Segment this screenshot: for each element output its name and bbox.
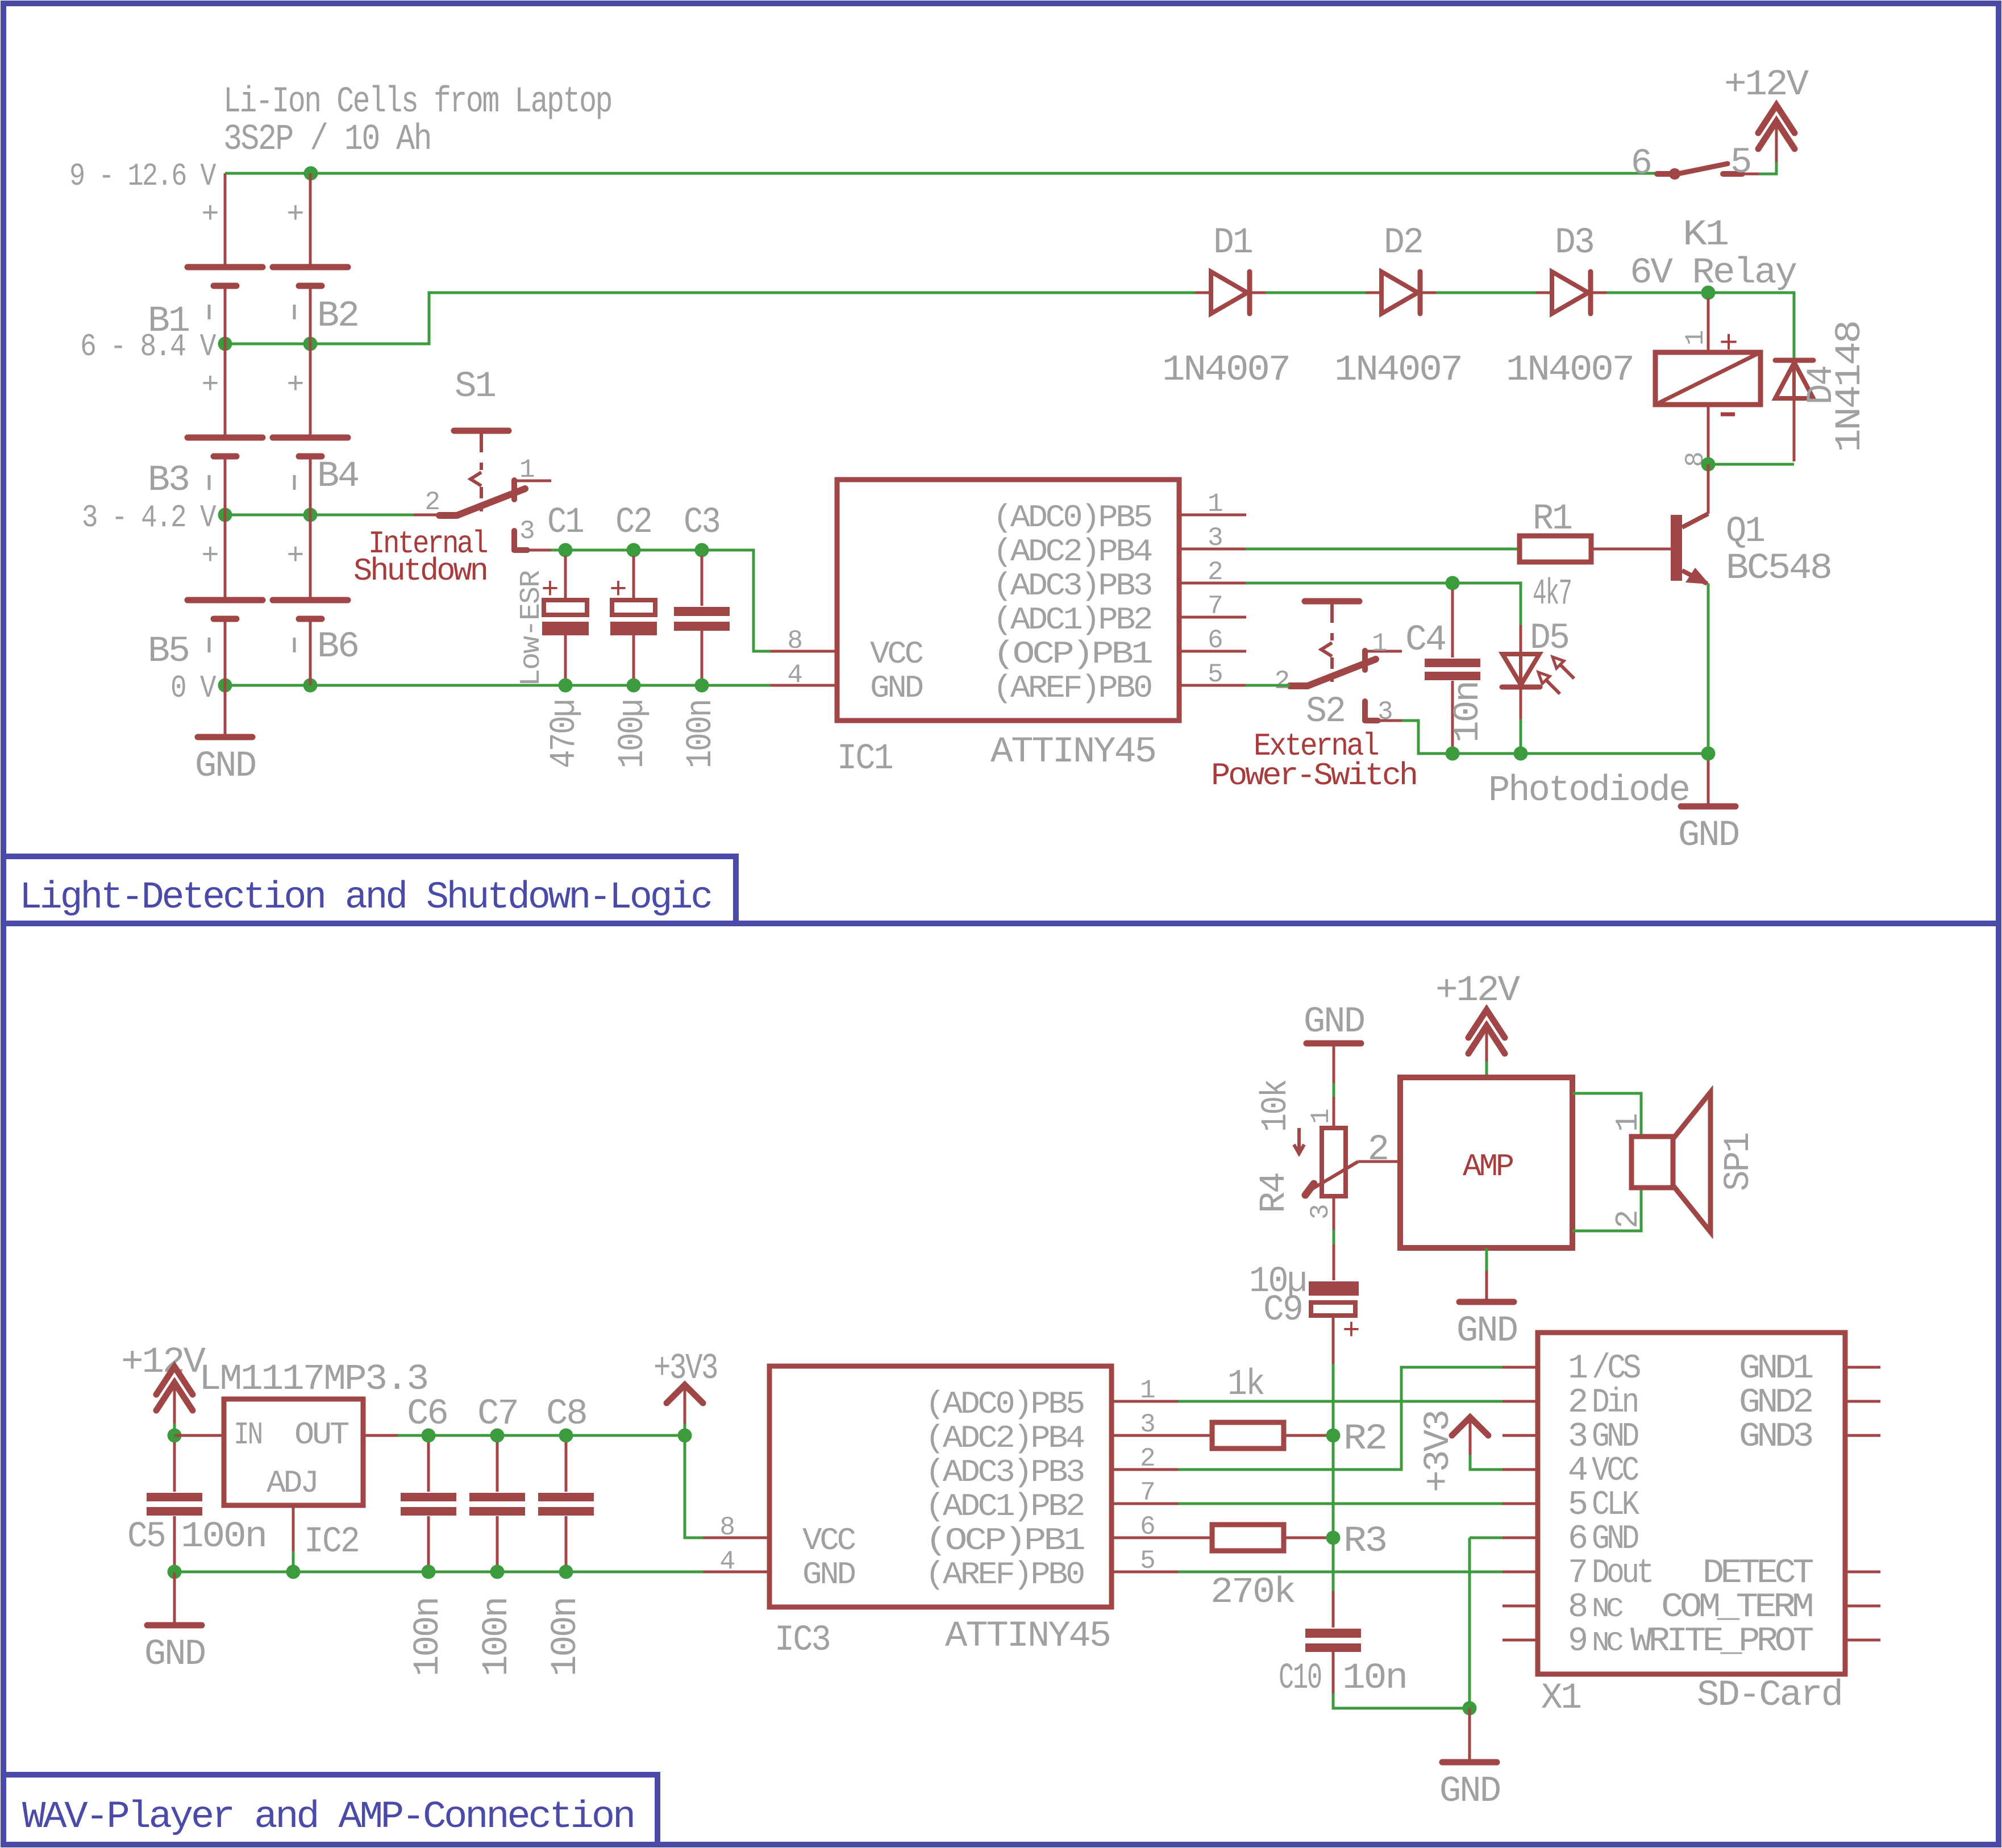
wire between D1 and D2	[1266, 292, 1366, 294]
svg-text:3S2P / 10 Ah: 3S2P / 10 Ah	[223, 119, 431, 160]
X1 right pin stubs	[1845, 1366, 1880, 1369]
capacitor C2	[627, 543, 641, 557]
svg-text:+: +	[201, 198, 219, 231]
svg-text:DETECT: DETECT	[1703, 1554, 1813, 1593]
svg-text:8: 8	[787, 626, 802, 656]
svg-text:Low-ESR: Low-ESR	[515, 571, 548, 686]
wire R4 pin3 to C9	[1333, 1196, 1335, 1230]
battery cell B4	[309, 344, 312, 435]
resistor R2 1k	[1179, 1434, 1212, 1437]
svg-text:B4: B4	[317, 456, 359, 497]
svg-text:COM_TERM: COM_TERM	[1661, 1588, 1812, 1627]
capacitor C6 100n	[422, 1429, 436, 1443]
svg-text:+: +	[1342, 1314, 1360, 1348]
svg-text:5: 5	[1730, 143, 1750, 184]
capacitor C10 10n	[1332, 1538, 1335, 1591]
svg-text:+3V3: +3V3	[1418, 1411, 1459, 1492]
battery cell B2	[309, 173, 312, 264]
ground below X1	[1468, 1708, 1471, 1762]
svg-text:(ADC0)PB5: (ADC0)PB5	[925, 1386, 1084, 1422]
svg-text:/CS: /CS	[1592, 1350, 1641, 1388]
svg-text:C2: C2	[615, 502, 651, 543]
svg-text:CLK: CLK	[1592, 1486, 1639, 1525]
svg-text:VCC: VCC	[802, 1522, 855, 1559]
svg-text:Din: Din	[1592, 1384, 1637, 1422]
svg-text:+: +	[286, 198, 304, 231]
node R3 output junction	[1326, 1531, 1341, 1545]
IC IC1 pin stubs right	[1179, 514, 1246, 517]
battery cell B5	[224, 515, 227, 597]
wire VCC stub into IC3 pin8	[703, 1537, 769, 1539]
svg-text:5: 5	[1568, 1486, 1587, 1525]
wire stub SD pin2	[1502, 1400, 1538, 1403]
title box WAV-Player	[3, 1775, 657, 1845]
svg-text:(ADC2)PB4: (ADC2)PB4	[993, 534, 1151, 570]
svg-text:(ADC2)PB4: (ADC2)PB4	[925, 1420, 1084, 1456]
wire D3 to relay and D4	[1606, 293, 1794, 358]
wire IC3 pin5 PB0 to SD Dout	[1179, 1571, 1502, 1574]
svg-text:+: +	[1719, 326, 1738, 362]
wire ground rail bottom section	[174, 1571, 703, 1574]
svg-text:C7: C7	[477, 1394, 518, 1435]
svg-text:1: 1	[519, 455, 535, 485]
svg-text:Shutdown: Shutdown	[353, 553, 486, 589]
svg-text:SP1: SP1	[1718, 1133, 1759, 1191]
svg-text:C6: C6	[407, 1394, 447, 1435]
title box Light-Detection	[3, 856, 736, 923]
potentiometer R4 adjust arrow	[1297, 1128, 1301, 1151]
relay K1 contact pins 6-5	[1657, 171, 1671, 177]
switch S1 pole pin 2	[414, 514, 439, 517]
switch S2 lever	[1290, 659, 1376, 686]
capacitor C7 100n	[490, 1429, 505, 1443]
svg-text:2: 2	[1368, 1130, 1388, 1171]
svg-text:1N4007: 1N4007	[1506, 350, 1633, 391]
svg-text:GND: GND	[1592, 1418, 1638, 1456]
svg-text:10n: 10n	[1342, 1658, 1406, 1699]
svg-text:C3: C3	[684, 502, 719, 543]
wire IC2 OUT to 3V3 rail	[363, 1434, 398, 1437]
svg-text:100n: 100n	[408, 1598, 449, 1676]
switch S1 lever	[439, 489, 525, 515]
svg-text:B5: B5	[148, 631, 189, 672]
amplifier AMP module	[1400, 1077, 1572, 1248]
battery cell B6	[309, 515, 312, 597]
svg-text:K1: K1	[1683, 215, 1728, 256]
svg-text:B2: B2	[317, 296, 358, 337]
wire GND stub into IC1 pin4	[771, 684, 837, 687]
battery cell B1	[224, 173, 227, 264]
node rail2 junction B1	[218, 337, 232, 351]
wire AMP output 1 to speaker	[1572, 1093, 1641, 1135]
svg-text:Power-Switch: Power-Switch	[1211, 757, 1416, 794]
switch S2 actuator	[1305, 598, 1359, 605]
wire 3-4.2V rail to S1	[225, 514, 414, 517]
svg-text:Li-Ion Cells from Laptop: Li-Ion Cells from Laptop	[223, 82, 611, 123]
svg-text:8: 8	[1568, 1588, 1587, 1627]
svg-text:100n: 100n	[181, 1517, 266, 1558]
svg-text:WAV-Player and AMP-Connection: WAV-Player and AMP-Connection	[22, 1796, 634, 1839]
wire 12V battery rail	[225, 172, 1657, 175]
svg-text:GND2: GND2	[1739, 1384, 1812, 1422]
svg-text:NC: NC	[1592, 1594, 1623, 1625]
photodiode D5	[1520, 625, 1522, 653]
wire IC2 ADJ to ground rail	[292, 1505, 295, 1551]
switch S2 pin 3	[1362, 701, 1368, 721]
wire AMP output 2 to speaker	[1572, 1189, 1641, 1231]
wire PB3 row to C4 and D5	[1246, 583, 1521, 625]
svg-text:C8: C8	[546, 1394, 586, 1435]
svg-text:R2: R2	[1343, 1419, 1386, 1460]
svg-text:AMP: AMP	[1463, 1148, 1513, 1185]
IC IC3 ATTINY45 body	[769, 1366, 1112, 1607]
capacitor C1	[559, 543, 573, 557]
svg-text:(ADC3)PB3: (ADC3)PB3	[925, 1454, 1084, 1491]
capacitor C9 10u	[1309, 1281, 1359, 1296]
ground below Q1	[1707, 754, 1710, 806]
wire audio net C9 to R2 to R3	[1332, 1364, 1335, 1435]
svg-text:+: +	[201, 539, 219, 573]
svg-text:+: +	[286, 539, 304, 573]
svg-text:1: 1	[1306, 1109, 1336, 1124]
svg-text:2: 2	[1610, 1212, 1646, 1229]
svg-text:9 - 12.6 V: 9 - 12.6 V	[69, 158, 217, 194]
svg-text:Light-Detection and Shutdown-L: Light-Detection and Shutdown-Logic	[19, 876, 711, 919]
svg-text:R1: R1	[1533, 499, 1572, 540]
svg-text:1: 1	[1140, 1376, 1155, 1405]
wire VCC rail from S1 to IC1 pin8	[551, 550, 771, 651]
svg-text:GND: GND	[870, 670, 922, 706]
wire ground stub into IC3 pin4	[703, 1571, 769, 1574]
switch S2 pole pin 2	[1264, 684, 1290, 687]
svg-text:5: 5	[1208, 660, 1223, 689]
svg-text:C5: C5	[127, 1517, 165, 1558]
svg-text:3: 3	[1140, 1410, 1155, 1439]
SD card holder X1	[1538, 1333, 1845, 1674]
IC IC1 ATTINY45 body	[837, 480, 1179, 721]
photodiode D5 light arrows	[1560, 664, 1574, 679]
svg-text:D3: D3	[1555, 223, 1593, 264]
wire IC3 pin1 PB5 to SD Din	[1179, 1400, 1502, 1403]
svg-text:3: 3	[1208, 523, 1223, 553]
svg-text:ATTINY45: ATTINY45	[945, 1616, 1110, 1657]
svg-text:270k: 270k	[1210, 1572, 1295, 1613]
diode D2 1N4007	[1381, 272, 1418, 314]
svg-text:GND1: GND1	[1739, 1350, 1813, 1388]
svg-text:1: 1	[1568, 1350, 1587, 1388]
node rail4 junction B6	[303, 679, 318, 693]
capacitor C5 100n	[173, 1442, 176, 1492]
transistor Q1 BC548	[1671, 515, 1682, 581]
wire VCC stub into IC1 pin8	[771, 650, 837, 653]
node rail3 junction B4	[303, 508, 318, 522]
svg-text:6: 6	[1140, 1512, 1155, 1542]
svg-text:2: 2	[1208, 557, 1223, 587]
svg-text:3: 3	[1377, 697, 1393, 727]
diode D3 1N4007	[1552, 272, 1588, 314]
resistor R1 4k7	[1246, 548, 1518, 551]
svg-text:IC2: IC2	[304, 1522, 359, 1563]
switch S1 pin 1	[514, 480, 551, 482]
svg-text:5: 5	[1140, 1546, 1155, 1576]
svg-text:VCC: VCC	[1592, 1452, 1638, 1491]
svg-text:100µ: 100µ	[613, 700, 654, 768]
wire IC3 pin2 PB3 to SD /CS	[1179, 1367, 1502, 1470]
svg-text:3: 3	[1306, 1204, 1335, 1219]
svg-text:Q1: Q1	[1726, 511, 1764, 552]
svg-text:1: 1	[1372, 629, 1387, 659]
node C4 top junction	[1446, 576, 1460, 590]
node rail2 junction B2	[303, 337, 318, 351]
svg-text:1: 1	[1610, 1114, 1646, 1132]
svg-text:4: 4	[1568, 1452, 1587, 1491]
svg-text:LM1117MP3.3: LM1117MP3.3	[199, 1359, 427, 1400]
switch S1 pin 3	[511, 531, 517, 550]
svg-text:D1: D1	[1213, 223, 1252, 264]
svg-text:4: 4	[787, 660, 802, 690]
svg-text:GND: GND	[195, 746, 256, 787]
section divider line	[3, 921, 1999, 926]
svg-text:C10: C10	[1279, 1658, 1321, 1699]
svg-text:IC1: IC1	[837, 739, 893, 780]
svg-text:GND: GND	[1439, 1771, 1500, 1812]
svg-text:IN: IN	[234, 1417, 261, 1453]
svg-text:S2: S2	[1306, 692, 1345, 732]
supply +12V top right	[1775, 124, 1778, 162]
node rail3 junction B3	[218, 508, 232, 522]
svg-text:ATTINY45: ATTINY45	[990, 732, 1155, 773]
wire between D2 and D3	[1436, 292, 1536, 294]
svg-text:B3: B3	[148, 460, 189, 501]
svg-text:2: 2	[424, 488, 440, 517]
wire AMP ground	[1485, 1248, 1488, 1271]
svg-text:B6: B6	[317, 627, 358, 668]
wire stub SD pin1	[1502, 1366, 1538, 1369]
svg-text:2: 2	[1568, 1384, 1586, 1422]
IC IC1 pin stubs left	[771, 650, 837, 653]
svg-text:100n: 100n	[477, 1598, 518, 1676]
ground below C5	[173, 1572, 176, 1625]
svg-text:7: 7	[1140, 1478, 1155, 1508]
svg-text:0 V: 0 V	[170, 670, 217, 706]
svg-text:3: 3	[519, 517, 535, 546]
wire relay pin5 to +12V	[1759, 162, 1776, 174]
relay K1 coil	[1707, 298, 1710, 352]
potentiometer R4 wiper	[1305, 1184, 1314, 1195]
svg-text:6: 6	[1631, 144, 1651, 185]
capacitor C8 100n	[559, 1429, 573, 1443]
node C10 ground junction	[1463, 1701, 1477, 1716]
svg-text:C9: C9	[1263, 1290, 1302, 1331]
wire photodiode ground row	[1418, 752, 1708, 755]
ground below batteries	[224, 685, 227, 737]
wire 0V rail	[225, 684, 771, 687]
svg-text:VCC: VCC	[870, 636, 923, 672]
switch S2 pin 1	[1365, 650, 1402, 653]
capacitor C3	[695, 543, 709, 557]
switch S1 actuator	[454, 428, 509, 434]
node rail4 junction B5	[218, 679, 232, 693]
svg-text:(OCP)PB1: (OCP)PB1	[925, 1522, 1084, 1559]
svg-text:1: 1	[1681, 330, 1710, 346]
svg-text:1N4007: 1N4007	[1334, 350, 1462, 391]
node R2 output junction	[1326, 1429, 1341, 1443]
wire relay-D4 bottom junction to Q1 collector	[1708, 463, 1794, 466]
svg-text:D2: D2	[1384, 223, 1422, 264]
svg-text:2: 2	[1274, 667, 1289, 696]
svg-text:SD-Card: SD-Card	[1697, 1675, 1842, 1716]
svg-text:2: 2	[1140, 1444, 1155, 1474]
node 3V3 rail junction	[678, 1429, 692, 1443]
wire PB0 row to S2	[1246, 684, 1290, 687]
svg-text:OUT: OUT	[294, 1417, 348, 1453]
svg-text:7: 7	[1208, 592, 1223, 621]
svg-text:(AREF)PB0: (AREF)PB0	[993, 670, 1151, 706]
diode D4 1N4148	[1775, 358, 1813, 363]
svg-text:R4: R4	[1254, 1173, 1295, 1213]
svg-text:100n: 100n	[546, 1598, 586, 1676]
ground below AMP	[1485, 1271, 1488, 1302]
svg-text:(ADC1)PB2: (ADC1)PB2	[925, 1488, 1083, 1525]
svg-text:+: +	[286, 368, 304, 402]
svg-text:B1: B1	[148, 301, 189, 342]
wire S2 pin3 to photodiode row	[1402, 721, 1452, 754]
svg-text:6: 6	[1568, 1520, 1587, 1559]
resistor R3 270k	[1179, 1537, 1212, 1539]
speaker SP1	[1631, 1137, 1673, 1188]
svg-text:(ADC3)PB3: (ADC3)PB3	[993, 568, 1151, 604]
wire 3V3 down to IC3 pin8	[685, 1435, 703, 1538]
svg-text:IC3: IC3	[775, 1620, 830, 1661]
svg-text:ADJ: ADJ	[267, 1465, 317, 1501]
svg-text:9: 9	[1568, 1622, 1586, 1661]
svg-text:+: +	[201, 368, 219, 402]
svg-text:1N4007: 1N4007	[1162, 350, 1289, 391]
svg-text:1k: 1k	[1227, 1364, 1264, 1405]
svg-text:GND: GND	[1456, 1311, 1517, 1352]
svg-text:+: +	[609, 573, 627, 607]
svg-text:(ADC0)PB5: (ADC0)PB5	[993, 500, 1151, 536]
svg-text:3: 3	[1568, 1418, 1587, 1456]
svg-text:6: 6	[1208, 626, 1223, 655]
svg-text:R3: R3	[1343, 1521, 1386, 1562]
X1 left pin stubs	[1502, 1366, 1538, 1369]
wire IC3 pin7 PB2 to SD CLK	[1179, 1502, 1502, 1505]
svg-text:4: 4	[719, 1547, 735, 1576]
svg-text:GND: GND	[1678, 815, 1739, 856]
svg-text:1: 1	[1208, 489, 1223, 519]
svg-text:(ADC1)PB2: (ADC1)PB2	[993, 602, 1151, 638]
svg-text:(OCP)PB1: (OCP)PB1	[993, 636, 1152, 672]
svg-text:10n: 10n	[1448, 682, 1489, 743]
svg-text:6V Relay: 6V Relay	[1630, 253, 1797, 294]
svg-text:X1: X1	[1541, 1678, 1581, 1719]
svg-text:+12V: +12V	[1435, 971, 1521, 1012]
wire X1 pin6 GND down	[1470, 1537, 1502, 1539]
capacitor C4 10n	[1451, 590, 1454, 657]
svg-text:3 - 4.2 V: 3 - 4.2 V	[82, 500, 217, 536]
svg-text:D5: D5	[1530, 618, 1568, 659]
svg-text:470µ: 470µ	[544, 700, 585, 768]
svg-text:BC548: BC548	[1726, 548, 1831, 589]
voltage regulator IC2 LM1117MP3.3	[174, 1434, 224, 1437]
IC IC3 pin stubs left	[703, 1537, 769, 1539]
battery cell B3	[224, 344, 227, 435]
svg-text:C1: C1	[547, 502, 584, 543]
svg-text:1N4148: 1N4148	[1830, 322, 1871, 452]
svg-text:S1: S1	[455, 367, 496, 407]
svg-text:4k7: 4k7	[1533, 574, 1571, 615]
svg-text:GND: GND	[1304, 1002, 1364, 1043]
wire 6-8.4V rail to diode row	[225, 293, 1196, 344]
node IC2 IN junction	[168, 1429, 182, 1443]
svg-text:Photodiode: Photodiode	[1488, 771, 1689, 811]
potentiometer R4 10k	[1322, 1128, 1346, 1196]
svg-text:(AREF)PB0: (AREF)PB0	[925, 1556, 1084, 1593]
svg-text:10k: 10k	[1256, 1080, 1297, 1132]
diode D1 1N4007	[1211, 272, 1247, 314]
svg-text:NC: NC	[1592, 1628, 1623, 1659]
svg-text:C4: C4	[1405, 620, 1446, 661]
node 12V rail junction	[304, 167, 318, 181]
svg-text:+12V: +12V	[121, 1342, 206, 1383]
IC IC3 pin stubs right	[1112, 1400, 1179, 1403]
svg-text:GND3: GND3	[1739, 1418, 1812, 1456]
svg-text:GND: GND	[802, 1556, 855, 1593]
svg-text:7: 7	[1568, 1554, 1586, 1593]
svg-text:WRITE_PROT: WRITE_PROT	[1630, 1622, 1813, 1661]
svg-text:GND: GND	[1592, 1520, 1638, 1559]
svg-text:+12V: +12V	[1724, 65, 1809, 106]
svg-text:GND: GND	[144, 1634, 205, 1675]
svg-text:Dout: Dout	[1592, 1554, 1651, 1593]
svg-text:100n: 100n	[681, 700, 722, 768]
svg-text:8: 8	[719, 1513, 735, 1542]
node relay coil top junction	[1701, 286, 1716, 300]
